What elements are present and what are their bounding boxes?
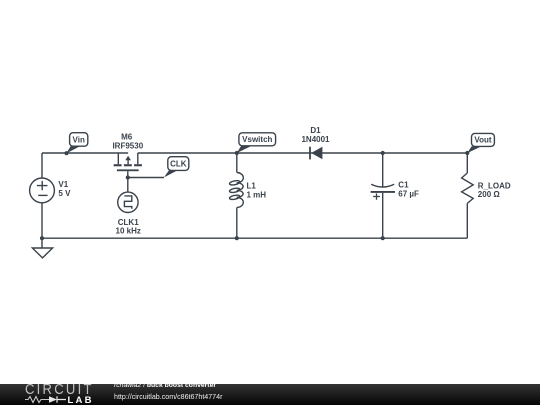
svg-text:67 µF: 67 µF (398, 189, 419, 198)
svg-text:Vswitch: Vswitch (242, 135, 272, 144)
svg-text:Vin: Vin (73, 135, 85, 144)
svg-text:5 V: 5 V (58, 189, 71, 198)
svg-text:D1: D1 (310, 126, 321, 135)
svg-text:1 mH: 1 mH (247, 190, 267, 199)
svg-text:CLK1: CLK1 (118, 218, 139, 227)
svg-text:R_LOAD: R_LOAD (478, 181, 511, 190)
svg-text:Vout: Vout (474, 136, 492, 145)
svg-text:IRF9530: IRF9530 (112, 142, 143, 151)
svg-text:CLK: CLK (170, 159, 187, 168)
svg-text:200 Ω: 200 Ω (478, 190, 501, 199)
svg-text:C1: C1 (398, 181, 409, 190)
svg-text:V1: V1 (58, 180, 68, 189)
svg-text:10 kHz: 10 kHz (116, 227, 141, 236)
svg-text:L1: L1 (247, 182, 257, 191)
svg-text:M6: M6 (121, 132, 133, 141)
svg-text:1N4001: 1N4001 (301, 135, 330, 144)
